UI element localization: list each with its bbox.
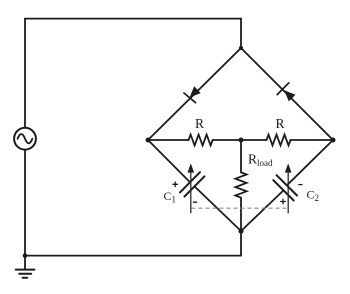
ground bar 3 (23, 277, 28, 279)
wire left vertical lower (24, 150, 26, 256)
AC source V1 sine symbol (18, 134, 33, 143)
AC source V1 circle (14, 128, 36, 150)
wire left vertical upper (24, 19, 26, 128)
wire bottom horizontal (25, 255, 241, 257)
wire bridge arm lower-left segment a (148, 140, 190, 182)
junction dot source-ground node (23, 253, 28, 258)
capacitor C2 plate 1 (277, 175, 297, 195)
wire top horizontal (25, 18, 241, 20)
wire bottom node to bottom wire (240, 231, 242, 256)
capacitor C1 arrow head (188, 163, 195, 172)
wire left node to resistor R1 (148, 139, 189, 141)
diode D1 cathode tick (184, 93, 196, 103)
wire bridge arm upper-right (241, 48, 333, 140)
diode D2 cathode tick (277, 83, 289, 95)
plus sign at C2 lower (281, 199, 286, 204)
ground stub wire (24, 256, 26, 270)
diode D2 arrow (284, 90, 295, 101)
svg-text:Rload: Rload (248, 152, 273, 169)
capacitor C1 plate 2 (185, 176, 205, 196)
junction dot center node (239, 138, 244, 143)
wire center node to resistor R2 (241, 139, 267, 141)
wire center node down to Rload (240, 140, 242, 172)
junction dot right node (331, 138, 336, 143)
svg-text:C2: C2 (307, 188, 320, 204)
ground bar 2 (19, 273, 31, 275)
capacitor C2 arrow head (285, 163, 292, 172)
ground bar 1 (16, 269, 35, 271)
resistor R2 zigzag (267, 135, 291, 146)
svg-text:R: R (195, 116, 204, 131)
wire Rload to bottom node (240, 198, 242, 231)
wire bridge arm lower-right segment b (287, 140, 333, 185)
capacitor C1 arrow shaft (190, 170, 192, 213)
junction dot top node (239, 46, 243, 50)
wire top node drop (240, 19, 242, 48)
wire resistor R1 to center node (213, 139, 241, 141)
capacitor C1 plate 1 (180, 172, 200, 192)
junction dot bottom node (238, 228, 243, 233)
svg-text:R: R (275, 116, 284, 131)
wire bridge arm upper-left (148, 48, 241, 140)
resistor R1 zigzag (189, 135, 213, 146)
dashed reference line between C1 and C2 arrows (192, 207, 289, 209)
minus sign at C1 lower (193, 201, 196, 203)
plus sign at C1 (173, 182, 178, 187)
wire resistor R2 to right node (291, 139, 334, 141)
capacitor C2 plate 2 (273, 180, 293, 200)
diode D1 arrow (190, 86, 201, 97)
wire bridge arm lower-right segment a (241, 190, 284, 231)
minus sign at C2 upper (299, 184, 302, 186)
junction dot left node (146, 138, 151, 143)
resistor Rload zigzag (235, 172, 246, 197)
capacitor C2 arrow shaft (287, 170, 289, 213)
wire bridge arm lower-left segment b (195, 186, 242, 231)
svg-text:C1: C1 (164, 189, 177, 205)
